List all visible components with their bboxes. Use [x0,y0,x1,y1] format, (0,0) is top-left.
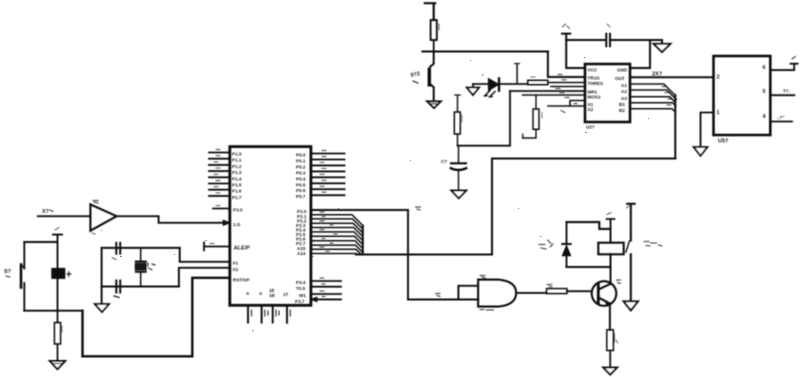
wire bus horizontal low [356,254,492,256]
speaker block U5 [714,56,771,145]
wire U5 pin6 power [770,57,797,71]
wire gate output [516,292,546,294]
LED D1 [473,75,499,98]
svg-text:2X?: 2X? [652,72,663,78]
svg-text:P0.0: P0.0 [296,153,306,158]
microcontroller U1 [230,147,311,306]
wire relay loop bottom [567,266,611,268]
pin stubs U1 right P3 [311,278,341,302]
wire buffer input [38,215,91,217]
svg-text:1: 1 [717,110,720,116]
wire stub rows U2 pins [548,87,585,107]
relay K1 coil [598,229,623,267]
ground cap rail [654,40,671,52]
wire cap rail right [612,39,662,41]
pin ALE tick U1 [204,243,230,251]
svg-text:RST/VP: RST/VP [233,278,250,283]
svg-text:X1: X1 [233,261,239,266]
svg-text:P1.6: P1.6 [232,189,242,194]
wire vertical node bus [458,91,511,146]
wire buffer output to U1 [117,216,230,225]
wire bus vertical mid [491,159,493,255]
svg-text:C?: C? [441,159,447,164]
switch S1 reset button [4,242,24,311]
svg-text:P3.7: P3.7 [295,299,305,304]
svg-text:P0.5: P0.5 [296,182,306,187]
wire U5 pin1 to ground [701,113,714,148]
svg-text:U5?: U5? [718,139,729,145]
scan noise specks [101,57,649,331]
svg-text:..?": ..?" [777,115,785,120]
capacitor C3 reset [52,242,71,311]
pin stubs U1 right P0 [311,151,345,196]
svg-text:T0.5: T0.5 [296,286,306,291]
node stub P0 row [515,64,520,83]
wire gate input tie [458,286,478,300]
svg-text:U2?: U2? [586,125,595,130]
resistor R3 [547,285,592,294]
resistor R1 [431,20,439,52]
resistor R2 [528,77,585,85]
svg-text:B2: B2 [619,108,625,113]
svg-text:A1: A1 [621,83,627,88]
svg-text:S?: S? [4,269,12,275]
power tap VCC reset [53,228,62,243]
wire U2 out to U5 pin2 [630,72,714,78]
pin stub U1 RXD [213,206,230,209]
ground reset [50,361,65,369]
logic gate U4 [478,276,516,311]
wire U2 GND leg [630,40,650,68]
power tap VCC cap rail [562,24,570,40]
diode D2 flyback [539,222,571,267]
capacitor C1 [112,243,120,260]
capacitor C2 [114,281,120,298]
svg-text:P1.3: P1.3 [232,170,242,175]
ground below C4 [451,190,466,198]
svg-text:P1.4: P1.4 [232,176,242,181]
capacitor C5 [606,24,610,46]
svg-text:P1.5: P1.5 [232,183,242,188]
wire relay loop top [567,222,611,229]
ground below Q1 [427,101,441,108]
transistor Q2 [592,280,621,306]
pin stubs U1 bottom [248,305,290,323]
svg-text:P0.4: P0.4 [296,176,306,181]
svg-text:T?.: T?. [783,89,790,94]
svg-text:OUT: OUT [615,76,625,81]
wire cap rail left [566,39,604,41]
svg-text:P1.1: P1.1 [232,158,242,163]
wire reset loop top [24,241,57,243]
wire bus vertical right [674,95,676,159]
svg-text:B1: B1 [619,102,625,107]
wire U5 pin5 [770,89,794,96]
crystal Y1 [135,248,155,287]
svg-text:2: 2 [717,75,720,81]
svg-text:1.G: 1.G [233,222,241,227]
wire U2 VCC leg [566,40,585,68]
wire bus vertical U1 [362,226,364,255]
ground U5 [694,147,708,156]
svg-text:P0.3: P0.3 [296,170,306,175]
svg-text:A3: A3 [621,96,627,101]
wire row to U2 pin4 [523,94,586,96]
wire reset loop bottom [24,310,82,312]
node XX input label [42,209,53,215]
power tap VCC relay [607,213,615,229]
pin number ticks U2 left [556,75,577,113]
transistor Q1 [410,52,434,102]
wire bus horizontal mid [492,158,675,160]
svg-text:X?: X? [42,209,50,215]
svg-text:1E: 1E [269,288,275,293]
svg-text:X2: X2 [233,267,239,272]
svg-text:5: 5 [763,89,766,95]
svg-text:P0.1: P0.1 [296,159,306,164]
svg-text:MOS2: MOS2 [588,95,601,100]
svg-text:TR1G: TR1G [588,76,601,81]
svg-text:GND: GND [617,68,628,73]
op-amp U3 buffer [90,201,116,235]
svg-text:W1: W1 [299,293,306,298]
wire XTAL1 [180,248,230,262]
svg-text:P1.0: P1.0 [232,152,242,157]
wire emitter down [609,304,611,330]
svg-text:P0.6: P0.6 [296,188,306,193]
wire P2.0 to gate input [408,210,478,300]
pin stubs U1 left P1 [209,150,230,196]
ground relay contact [624,301,638,310]
svg-text:P1.2: P1.2 [232,164,242,169]
ground crystal [95,304,109,312]
wire collector up [610,254,612,284]
svg-text:1B: 1B [269,293,276,298]
wire XTAL2 [179,268,230,287]
svg-text:P0.2: P0.2 [296,164,306,169]
wire from rail down to U2 pin row [548,52,585,78]
wire crystal rail top [102,247,180,249]
ground for LED D1 [467,84,479,95]
wire LED to R2 [499,83,528,85]
bus wires U2 right stair [630,84,676,112]
svg-text:1T: 1T [283,292,289,297]
resistor R6 [523,95,543,249]
ground R4 [603,368,617,375]
wire U1 P2.0 long [311,207,421,210]
capacitor C4 electrolytic [441,146,466,190]
wire VCC horizontal rail [423,50,548,53]
wire crystal left leg [101,248,103,304]
wire reset to RST pin [83,278,230,357]
power rail stub VCC top [425,3,435,20]
svg-text:P0.7: P0.7 [296,194,306,199]
resistor R4 [607,330,618,368]
svg-text:P3.0: P3.0 [233,208,243,213]
svg-text:6: 6 [763,65,766,71]
wire crystal rail bottom [102,286,179,288]
bus wires U1 right P2 stair [311,212,363,254]
svg-text:P1.7: P1.7 [232,195,242,200]
svg-text:THRES: THRES [588,81,604,86]
svg-text:A14: A14 [297,251,306,256]
op-amp U2 box [585,64,630,130]
wire U5 pin4 [770,115,792,122]
relay contact arm [626,204,662,301]
svg-text:VCC: VCC [588,68,598,73]
resistor R7 reset [54,311,62,361]
svg-text:X2: X2 [588,107,594,112]
svg-text:A2: A2 [621,89,627,94]
svg-text:P3.4: P3.4 [296,280,306,285]
wire row to U2 pin3 [510,90,585,92]
svg-text:ALE/P: ALE/P [233,246,251,252]
resistor R5 [454,95,462,146]
